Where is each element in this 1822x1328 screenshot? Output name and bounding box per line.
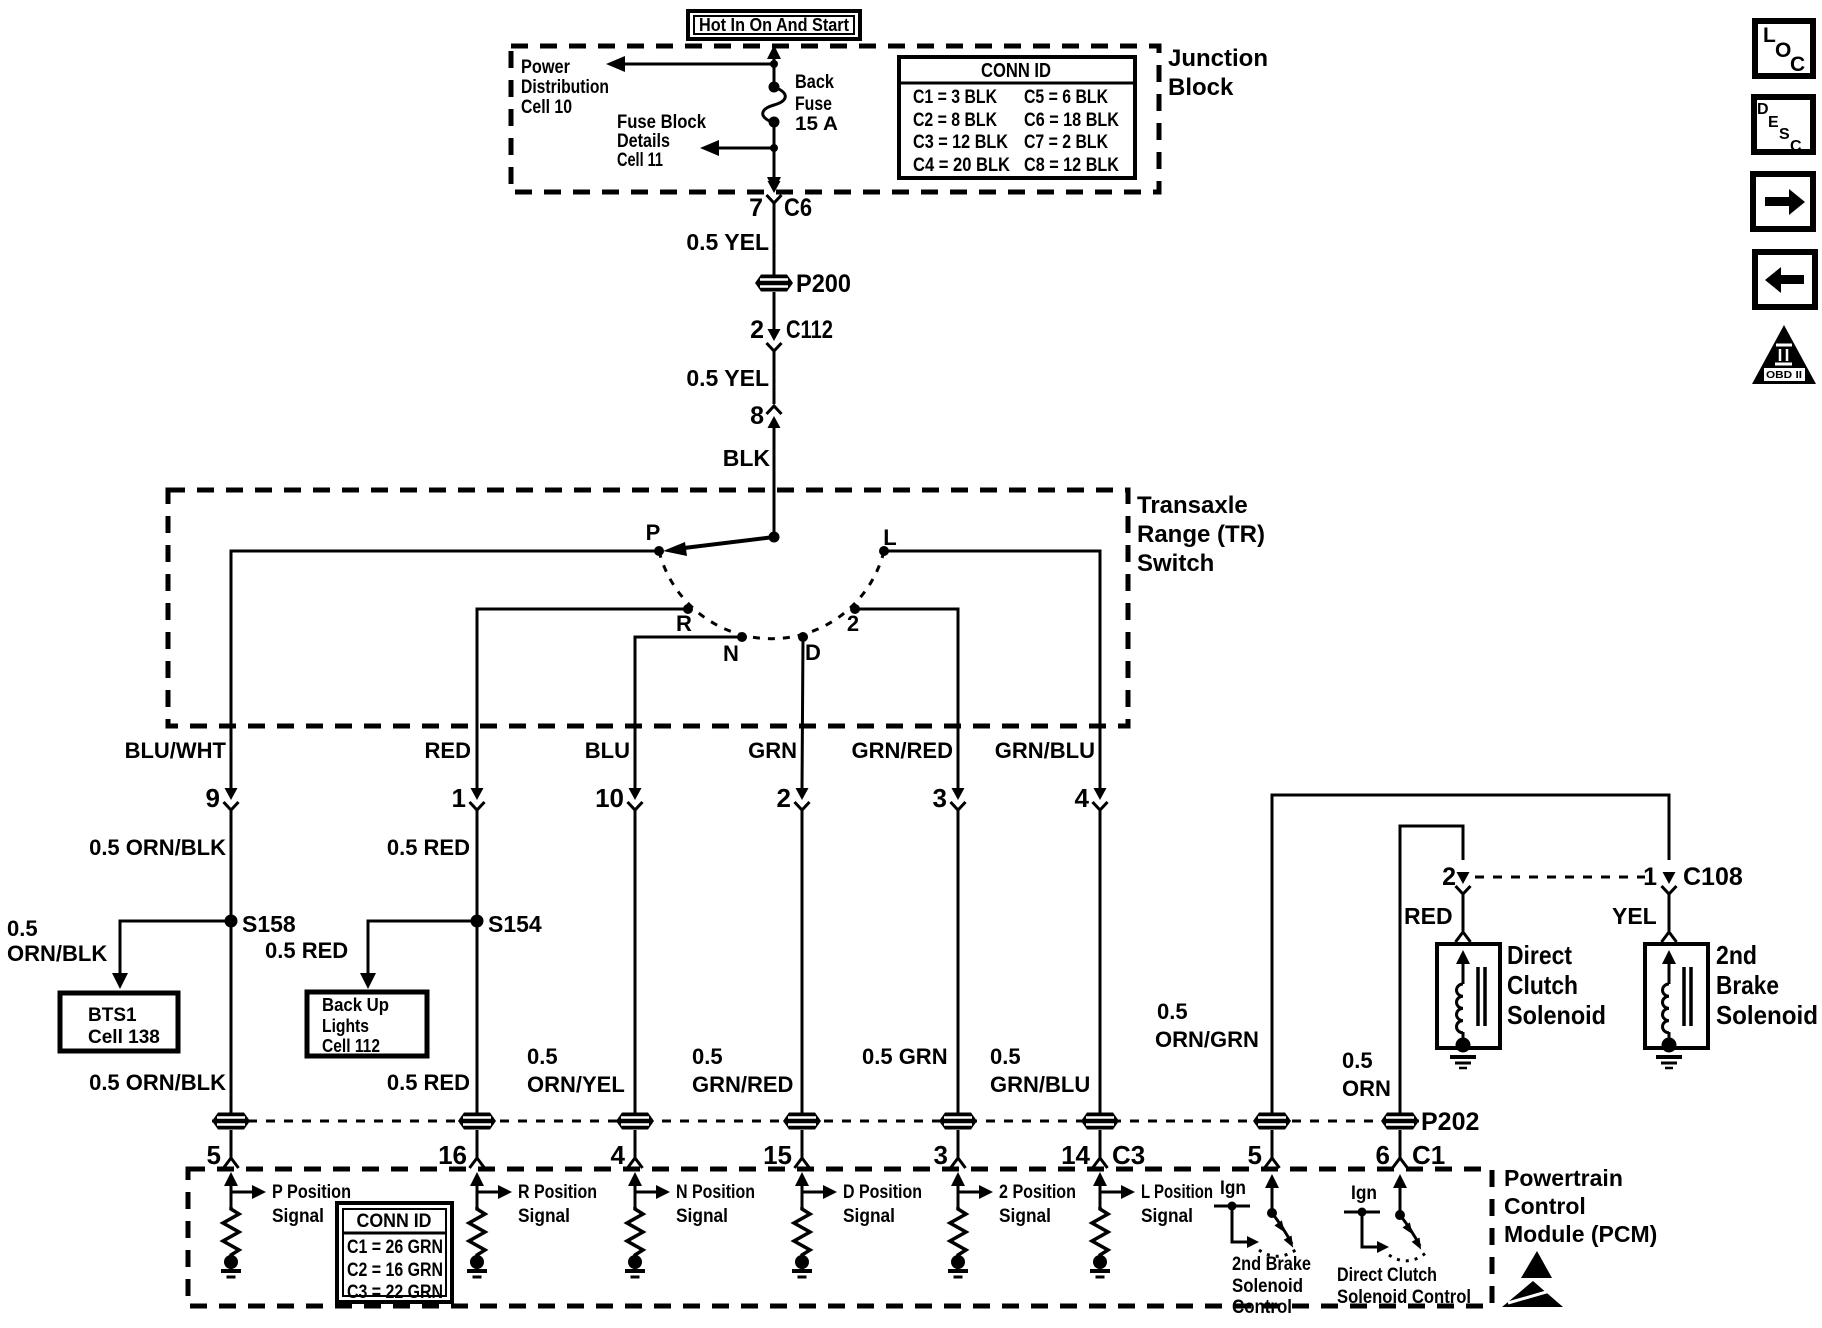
svg-text:2 Position: 2 Position xyxy=(999,1182,1076,1203)
svg-text:Signal: Signal xyxy=(676,1206,728,1227)
svg-text:0.5: 0.5 xyxy=(7,916,38,941)
svg-text:RED: RED xyxy=(1404,903,1453,929)
svg-text:ORN/GRN: ORN/GRN xyxy=(1155,1027,1259,1052)
wire P contact to left and down (BLU/WHT) xyxy=(231,551,659,789)
svg-text:2: 2 xyxy=(777,783,791,813)
wire PCM pin 6 up and across to direct clutch solenoid xyxy=(1400,826,1463,1113)
svg-text:C6 = 18 BLK: C6 = 18 BLK xyxy=(1024,110,1119,131)
svg-text:CONN ID: CONN ID xyxy=(981,60,1051,82)
svg-text:Block: Block xyxy=(1168,74,1234,101)
PCM pin 14 C3 entry xyxy=(1061,1130,1145,1170)
svg-text:C7 = 2 BLK: C7 = 2 BLK xyxy=(1024,132,1108,153)
svg-text:GRN/BLU: GRN/BLU xyxy=(995,738,1095,763)
N Position Signal input xyxy=(625,1172,755,1277)
svg-text:P202: P202 xyxy=(1421,1108,1479,1136)
svg-text:0.5 RED: 0.5 RED xyxy=(387,835,470,860)
connector P202 terminal (pin 6, ORN) xyxy=(1381,1113,1419,1130)
svg-text:0.5 YEL: 0.5 YEL xyxy=(686,229,769,255)
pin 10 connector (BLU wire) xyxy=(595,783,642,1113)
svg-text:5: 5 xyxy=(1248,1140,1262,1170)
svg-text:GRN/RED: GRN/RED xyxy=(692,1072,793,1097)
svg-text:L: L xyxy=(883,525,896,550)
svg-text:Back: Back xyxy=(795,71,834,93)
svg-text:Back Up: Back Up xyxy=(322,995,389,1015)
svg-text:2: 2 xyxy=(1442,863,1456,891)
svg-text:C4 = 20 BLK: C4 = 20 BLK xyxy=(913,155,1010,176)
svg-text:2: 2 xyxy=(750,316,764,344)
contact L xyxy=(879,546,889,556)
svg-text:Cell 11: Cell 11 xyxy=(617,149,663,171)
svg-text:0.5 YEL: 0.5 YEL xyxy=(686,365,769,391)
2nd Brake Solenoid Control driver xyxy=(1214,1174,1311,1318)
2nd Brake Solenoid xyxy=(1645,932,1708,1068)
connector P202 terminal (pin 5, ORN/GRN) xyxy=(1253,1113,1291,1130)
svg-text:Ign: Ign xyxy=(1220,1178,1246,1199)
svg-text:GRN/BLU: GRN/BLU xyxy=(990,1072,1090,1097)
PCM pin 4 entry xyxy=(611,1130,643,1170)
svg-text:BLK: BLK xyxy=(723,445,771,471)
svg-text:Cell 112: Cell 112 xyxy=(322,1036,380,1056)
pin 2 connector C108 xyxy=(1442,863,1470,931)
svg-text:ORN/BLK: ORN/BLK xyxy=(7,941,107,966)
svg-text:2nd: 2nd xyxy=(1716,940,1757,970)
wire D contact (GRN) xyxy=(802,637,803,789)
icon OBD II triangle xyxy=(1752,325,1816,384)
svg-text:Solenoid: Solenoid xyxy=(1716,1000,1818,1030)
svg-text:S154: S154 xyxy=(488,911,542,937)
svg-text:Fuse: Fuse xyxy=(795,93,832,115)
splice S154 xyxy=(360,911,542,1113)
svg-text:2nd Brake: 2nd Brake xyxy=(1232,1254,1311,1275)
svg-text:Control: Control xyxy=(1504,1193,1586,1219)
box Back Up Lights Cell 112 xyxy=(307,992,427,1056)
svg-text:S: S xyxy=(1779,126,1790,143)
PCM pin 5 C1 entry (2nd brake) xyxy=(1248,1130,1280,1170)
svg-text:D: D xyxy=(1757,101,1769,118)
svg-text:9: 9 xyxy=(206,783,220,813)
svg-text:Power: Power xyxy=(521,56,570,78)
svg-text:BTS1: BTS1 xyxy=(88,1005,137,1026)
svg-text:0.5 ORN/BLK: 0.5 ORN/BLK xyxy=(89,835,226,860)
icon right arrow xyxy=(1753,174,1813,229)
svg-text:YEL: YEL xyxy=(1612,903,1657,929)
pin 2 connector C112 xyxy=(750,316,833,404)
svg-text:C1: C1 xyxy=(1412,1140,1445,1170)
pin 1 connector (RED wire) xyxy=(452,783,485,921)
svg-text:2: 2 xyxy=(847,611,859,636)
svg-text:Junction: Junction xyxy=(1168,45,1268,72)
R Position Signal input xyxy=(467,1172,597,1277)
svg-text:Signal: Signal xyxy=(1141,1206,1193,1227)
Direct Clutch Solenoid Control driver xyxy=(1337,1174,1471,1308)
wire L contact (GRN/BLU) xyxy=(884,551,1100,789)
svg-text:Signal: Signal xyxy=(843,1206,895,1227)
svg-text:C: C xyxy=(1790,53,1805,76)
svg-text:OBD II: OBD II xyxy=(1766,370,1802,381)
svg-text:Cell 10: Cell 10 xyxy=(521,96,572,118)
svg-text:0.5 GRN: 0.5 GRN xyxy=(862,1044,948,1069)
P Position Signal input xyxy=(221,1172,351,1277)
svg-text:4: 4 xyxy=(611,1140,626,1170)
svg-text:BLU/WHT: BLU/WHT xyxy=(125,738,227,763)
wire 2 contact (GRN/RED) xyxy=(855,609,958,789)
svg-text:1: 1 xyxy=(452,783,466,813)
svg-text:P200: P200 xyxy=(796,270,851,298)
connector P202 terminal (pin 14, GRN/BLU) xyxy=(1081,1113,1119,1130)
svg-text:Clutch: Clutch xyxy=(1507,970,1578,1000)
svg-text:Direct: Direct xyxy=(1507,940,1572,970)
connector P202 terminal (pin 16, RED) xyxy=(458,1113,496,1130)
table CONN ID (junction block) xyxy=(899,57,1135,178)
svg-text:GRN/RED: GRN/RED xyxy=(852,738,953,763)
svg-text:0.5 ORN/BLK: 0.5 ORN/BLK xyxy=(89,1070,226,1095)
svg-text:Direct Clutch: Direct Clutch xyxy=(1337,1265,1437,1286)
pin 3 connector (GRN/RED wire) xyxy=(933,783,966,1113)
svg-text:15: 15 xyxy=(763,1140,792,1170)
pin 4 connector (GRN/BLU wire) xyxy=(1075,783,1108,1113)
wire down to C6 xyxy=(767,148,781,191)
splice S158 xyxy=(112,911,296,1113)
switch arm to P xyxy=(663,537,774,556)
svg-text:0.5 RED: 0.5 RED xyxy=(265,938,348,963)
svg-text:Range (TR): Range (TR) xyxy=(1137,521,1265,548)
pin 7 connector C6 xyxy=(749,181,812,275)
svg-text:C3: C3 xyxy=(1112,1140,1145,1170)
connector P202 terminal (pin 5, ORN/BLK) xyxy=(212,1113,250,1130)
svg-text:C2 = 16 GRN: C2 = 16 GRN xyxy=(347,1260,443,1281)
ESD symbol xyxy=(1502,1251,1563,1307)
dashed harness line xyxy=(212,1120,1419,1123)
svg-text:CONN ID: CONN ID xyxy=(357,1211,432,1232)
PCM pin 5 entry xyxy=(207,1130,239,1170)
svg-text:Module (PCM): Module (PCM) xyxy=(1504,1221,1657,1247)
svg-text:D Position: D Position xyxy=(843,1182,922,1203)
contact P xyxy=(654,546,664,556)
svg-text:Solenoid: Solenoid xyxy=(1507,1000,1606,1030)
connector P200 xyxy=(755,270,851,330)
svg-text:ORN: ORN xyxy=(1342,1076,1391,1101)
svg-text:C108: C108 xyxy=(1683,863,1743,891)
connector P202 terminal (pin 4, ORN/YEL) xyxy=(616,1113,654,1130)
svg-text:ORN/YEL: ORN/YEL xyxy=(527,1072,625,1097)
svg-text:P: P xyxy=(646,520,661,545)
box BTS1 Cell 138 xyxy=(60,993,178,1051)
svg-text:16: 16 xyxy=(438,1140,467,1170)
svg-text:C6: C6 xyxy=(784,194,812,222)
PCM pin 15 entry xyxy=(763,1130,809,1170)
svg-text:C: C xyxy=(1790,138,1802,155)
wire PCM pin 5 up and across to 2nd brake solenoid xyxy=(1272,795,1669,1113)
svg-text:C2 = 8 BLK: C2 = 8 BLK xyxy=(913,110,997,131)
connector P202 terminal (pin 3, GRN) xyxy=(939,1113,977,1130)
svg-text:N: N xyxy=(723,641,739,666)
svg-text:E: E xyxy=(1768,114,1779,131)
svg-text:Ign: Ign xyxy=(1351,1183,1377,1204)
svg-text:C1 = 26 GRN: C1 = 26 GRN xyxy=(347,1237,443,1258)
svg-text:C3 = 12 BLK: C3 = 12 BLK xyxy=(913,132,1008,153)
wire: feed from Hot into junction block xyxy=(767,45,781,86)
svg-text:Hot In On And Start: Hot In On And Start xyxy=(699,15,849,35)
svg-text:Switch: Switch xyxy=(1137,550,1214,577)
L Position Signal input xyxy=(1090,1172,1213,1277)
svg-text:D: D xyxy=(805,640,821,665)
wire R contact (RED) xyxy=(477,609,688,789)
dashed connector line C108 xyxy=(1475,876,1645,879)
wire N contact (BLU) xyxy=(635,637,742,789)
svg-text:Solenoid Control: Solenoid Control xyxy=(1337,1287,1471,1308)
D Position Signal input xyxy=(792,1172,922,1277)
svg-text:Transaxle: Transaxle xyxy=(1137,492,1248,519)
svg-text:Powertrain: Powertrain xyxy=(1504,1165,1623,1191)
svg-text:8: 8 xyxy=(750,402,764,430)
svg-text:0.5: 0.5 xyxy=(692,1044,723,1069)
connector P202 terminal (pin 15, GRN/RED) xyxy=(783,1113,821,1130)
svg-text:15 A: 15 A xyxy=(795,113,838,135)
svg-text:C5 = 6 BLK: C5 = 6 BLK xyxy=(1024,87,1108,108)
pin 8 connector into TR switch xyxy=(750,402,781,537)
arrow to Power Distribution xyxy=(606,56,778,72)
table CONN ID (PCM) xyxy=(337,1203,452,1303)
svg-text:S158: S158 xyxy=(242,911,296,937)
svg-text:C8 = 12 BLK: C8 = 12 BLK xyxy=(1024,155,1119,176)
svg-text:C112: C112 xyxy=(786,316,833,344)
svg-text:3: 3 xyxy=(933,783,947,813)
svg-text:R: R xyxy=(676,611,692,636)
svg-text:O: O xyxy=(1775,39,1791,62)
svg-text:Signal: Signal xyxy=(518,1206,570,1227)
svg-text:RED: RED xyxy=(425,738,471,763)
svg-text:Signal: Signal xyxy=(999,1206,1051,1227)
svg-text:5: 5 xyxy=(207,1140,221,1170)
svg-text:3: 3 xyxy=(934,1140,948,1170)
svg-text:R Position: R Position xyxy=(518,1182,597,1203)
pin 9 connector (BLU/WHT wire) xyxy=(206,783,239,921)
svg-text:Solenoid: Solenoid xyxy=(1232,1276,1303,1297)
dashed contact arc xyxy=(659,551,884,639)
svg-text:0.5: 0.5 xyxy=(1157,999,1188,1024)
svg-text:C3 = 22 GRN: C3 = 22 GRN xyxy=(347,1282,443,1303)
PCM pin 6 C1 entry (direct clutch) xyxy=(1376,1130,1446,1170)
switch pivot xyxy=(769,532,780,543)
svg-text:0.5 RED: 0.5 RED xyxy=(387,1070,470,1095)
icon LOC xyxy=(1755,21,1813,76)
icon left arrow xyxy=(1755,252,1815,307)
svg-text:Signal: Signal xyxy=(272,1206,324,1227)
svg-text:10: 10 xyxy=(595,783,624,813)
contact D xyxy=(798,632,808,642)
svg-text:P Position: P Position xyxy=(272,1182,351,1203)
pin 1 connector C108 xyxy=(1643,863,1743,931)
svg-text:4: 4 xyxy=(1075,783,1090,813)
svg-text:L Position: L Position xyxy=(1141,1182,1213,1203)
svg-text:Distribution: Distribution xyxy=(521,76,609,98)
svg-text:Cell 138: Cell 138 xyxy=(88,1027,160,1048)
svg-text:Control: Control xyxy=(1232,1297,1292,1318)
PCM pin 3 entry xyxy=(934,1130,966,1170)
contact R xyxy=(683,604,693,614)
svg-text:14: 14 xyxy=(1061,1140,1090,1170)
contact 2 xyxy=(850,604,860,614)
contact N xyxy=(737,632,747,642)
svg-text:C1 = 3 BLK: C1 = 3 BLK xyxy=(913,87,997,108)
Direct Clutch Solenoid xyxy=(1437,932,1500,1068)
PCM pin 16 entry xyxy=(438,1130,484,1170)
svg-text:7: 7 xyxy=(749,194,763,222)
svg-text:Lights: Lights xyxy=(322,1016,369,1036)
svg-text:1: 1 xyxy=(1643,863,1657,891)
svg-text:GRN: GRN xyxy=(748,738,797,763)
fuse Back Fuse 15 A xyxy=(763,82,786,149)
svg-text:N Position: N Position xyxy=(676,1182,755,1203)
svg-text:BLU: BLU xyxy=(585,738,630,763)
svg-text:0.5: 0.5 xyxy=(527,1044,558,1069)
pin 2 connector (GRN wire) xyxy=(777,783,810,1113)
svg-text:6: 6 xyxy=(1376,1140,1390,1170)
svg-text:0.5: 0.5 xyxy=(990,1044,1021,1069)
svg-text:Brake: Brake xyxy=(1716,970,1779,1000)
icon DESC xyxy=(1754,97,1813,155)
2 Position Signal input xyxy=(948,1172,1076,1277)
svg-text:0.5: 0.5 xyxy=(1342,1048,1373,1073)
arrow to Fuse Block Details xyxy=(700,140,778,156)
